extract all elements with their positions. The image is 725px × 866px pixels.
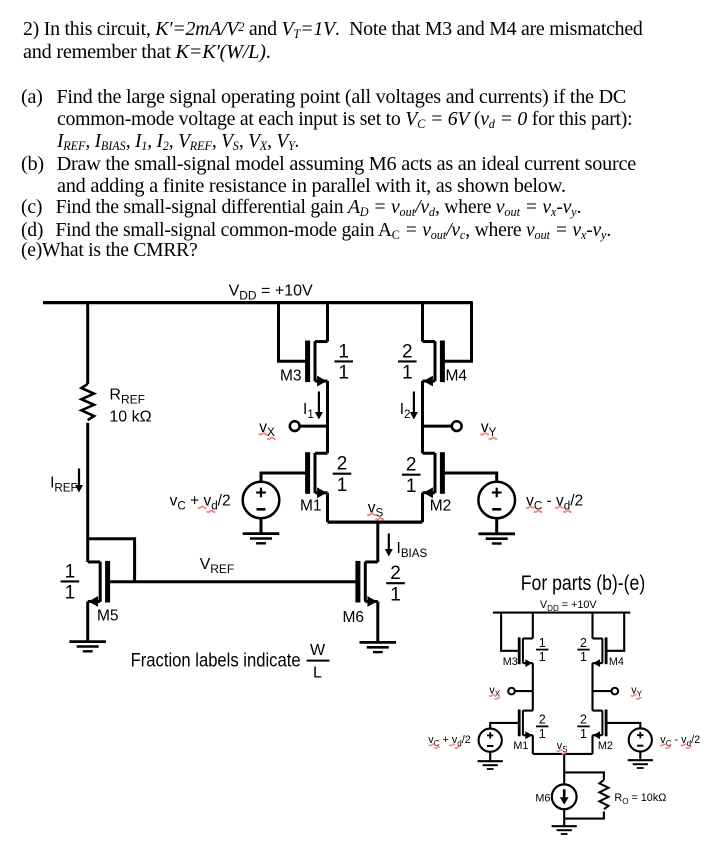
svg-text:vY: vY	[481, 419, 497, 439]
svg-text:vC - vd/2: vC - vd/2	[660, 734, 700, 748]
svg-text:VDD = +10V: VDD = +10V	[229, 283, 313, 303]
svg-text:VDD = +10V: VDD = +10V	[540, 599, 598, 613]
svg-text:RREF: RREF	[109, 387, 145, 407]
svg-text:1: 1	[65, 561, 76, 582]
svg-text:2: 2	[580, 636, 587, 650]
svg-text:I2: I2	[400, 401, 411, 421]
svg-text:vC + vd/2: vC + vd/2	[170, 493, 231, 513]
svg-text:M2: M2	[598, 740, 613, 752]
svg-text:M1: M1	[300, 498, 322, 515]
svg-text:1: 1	[406, 476, 417, 497]
svg-text:IBIAS: IBIAS	[397, 540, 428, 560]
svg-text:M3: M3	[280, 367, 302, 384]
svg-text:M1: M1	[513, 740, 528, 752]
svg-text:L: L	[313, 665, 322, 682]
svg-text:M2: M2	[430, 498, 452, 515]
svg-text:1: 1	[338, 363, 349, 384]
svg-text:1: 1	[539, 727, 546, 741]
svg-text:vC - vd/2: vC - vd/2	[526, 493, 583, 513]
svg-text:I1: I1	[303, 401, 314, 421]
svg-text:1: 1	[402, 363, 413, 384]
svg-text:1: 1	[539, 650, 546, 664]
svg-text:IREF: IREF	[50, 475, 78, 495]
svg-text:M5: M5	[97, 608, 119, 625]
svg-text:2: 2	[580, 713, 587, 727]
svg-text:M4: M4	[446, 368, 468, 385]
svg-text:2: 2	[406, 455, 417, 476]
svg-text:2: 2	[402, 341, 413, 362]
svg-text:M3: M3	[503, 656, 518, 668]
svg-text:1: 1	[338, 341, 349, 362]
svg-text:1: 1	[390, 585, 401, 606]
svg-text:1: 1	[65, 583, 76, 604]
svg-text:2: 2	[337, 454, 348, 475]
svg-text:M4: M4	[609, 656, 624, 668]
svg-text:1: 1	[580, 650, 587, 664]
svg-text:10 kΩ: 10 kΩ	[109, 409, 151, 426]
svg-text:1: 1	[580, 727, 587, 741]
svg-text:Fraction labels indicate: Fraction labels indicate	[131, 650, 301, 672]
svg-text:RO = 10kΩ: RO = 10kΩ	[614, 792, 666, 806]
svg-text:1: 1	[539, 636, 546, 650]
svg-text:VREF: VREF	[200, 556, 235, 576]
svg-text:2: 2	[390, 563, 401, 584]
svg-text:M6: M6	[343, 609, 365, 626]
svg-text:2: 2	[539, 713, 546, 727]
svg-text:vS: vS	[368, 500, 384, 520]
svg-text:M6: M6	[535, 793, 550, 805]
svg-text:W: W	[310, 642, 326, 659]
svg-text:For parts (b)-(e): For parts (b)-(e)	[521, 571, 646, 595]
svg-text:vX: vX	[259, 419, 275, 439]
svg-text:1: 1	[337, 475, 348, 496]
